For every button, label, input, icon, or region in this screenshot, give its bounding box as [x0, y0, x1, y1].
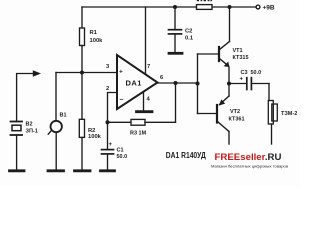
earphone TEM-2 — [268, 84, 277, 145]
ground (under R2) — [75, 169, 91, 172]
svg-text:R3 1M: R3 1M — [130, 131, 147, 137]
label C3 50.0 — [241, 70, 262, 76]
watermark FREEseller.RU — [211, 152, 288, 168]
svg-text:В2: В2 — [26, 122, 33, 128]
label В2 ЗП-1 — [26, 122, 38, 135]
svg-text:0.1: 0.1 — [185, 36, 194, 42]
svg-text:C1: C1 — [117, 148, 124, 154]
svg-text:В1: В1 — [60, 113, 67, 119]
svg-text:VT2: VT2 — [230, 109, 240, 115]
svg-text:C3: C3 — [241, 70, 248, 76]
wire B2 to input with arrow — [17, 70, 41, 120]
wire pin 2 feedback left — [108, 93, 118, 123]
piezo B2 — [11, 122, 23, 170]
op-amp U1 DA1 triangle — [117, 55, 158, 109]
svg-text:2: 2 — [106, 86, 109, 92]
svg-text:100k: 100k — [90, 38, 104, 44]
capacitor C2 — [169, 7, 182, 52]
node junction R1/R2 input — [80, 70, 84, 74]
resistor R5 (top, label clipped) — [197, 5, 213, 10]
microphone B1 — [48, 73, 62, 170]
svg-text:КТ315: КТ315 — [233, 55, 249, 61]
resistor R2 — [79, 73, 84, 170]
wire base coupling vertical — [197, 54, 199, 114]
svg-text:FREEseller.RU: FREEseller.RU — [215, 152, 282, 162]
resistor R1 — [80, 7, 85, 73]
wire pin 4 down — [143, 92, 145, 110]
svg-text:–: – — [120, 97, 124, 104]
wire input to pin 3 — [56, 72, 117, 74]
node junction feedback / C1 — [105, 120, 109, 124]
svg-text:VT1: VT1 — [233, 48, 243, 54]
node junction output / feedback — [173, 81, 177, 85]
svg-text:Магазин бесплатных цифровых то: Магазин бесплатных цифровых товаров — [211, 164, 288, 168]
svg-text:C2: C2 — [185, 29, 192, 35]
svg-text:7: 7 — [147, 64, 150, 70]
capacitor C1 — [102, 122, 114, 169]
ground (under pin 4) — [137, 110, 153, 113]
svg-text:+: + — [240, 77, 244, 83]
capacitor C3 — [229, 78, 269, 90]
wire pin 7 to rail — [145, 7, 147, 74]
svg-text:ТЗМ-2: ТЗМ-2 — [281, 111, 297, 117]
svg-text:50.0: 50.0 — [117, 154, 128, 160]
resistor R3 — [108, 119, 176, 125]
svg-text:R2: R2 — [88, 128, 95, 134]
wire output pin 6 — [158, 82, 198, 84]
label R1 100k — [90, 30, 104, 44]
svg-text:DA1 R140УД: DA1 R140УД — [166, 151, 206, 160]
svg-text:3: 3 — [106, 64, 110, 70]
ground (under B2) — [10, 169, 25, 172]
svg-text:ЗП-1: ЗП-1 — [26, 129, 38, 135]
svg-text:50.0: 50.0 — [251, 70, 262, 76]
ground (under C2) — [169, 52, 182, 55]
transistor Q2 VT2 KT361 — [198, 84, 230, 145]
svg-text:DA1: DA1 — [126, 79, 142, 88]
ground (under C1) — [101, 169, 115, 172]
svg-text:4: 4 — [147, 97, 151, 103]
svg-text:+: + — [109, 142, 113, 148]
label R2 100k — [88, 128, 102, 140]
terminal +9V — [256, 5, 260, 9]
node junction emitters / C3 — [227, 81, 231, 85]
node junction rail / VT1 collector — [228, 5, 232, 9]
node junction rail / C2 — [173, 5, 177, 9]
svg-text:100k: 100k — [88, 134, 102, 140]
ground (under B1) — [48, 169, 64, 172]
svg-text:+9В: +9В — [263, 5, 275, 12]
label C2 0.1 — [185, 29, 194, 42]
svg-text:КТ361: КТ361 — [229, 117, 245, 123]
wire top supply rail — [82, 6, 256, 8]
label C1 50.0 — [117, 148, 128, 161]
svg-text:+: + — [119, 69, 123, 76]
transistor Q1 VT1 KT315 — [198, 7, 230, 84]
wire feedback up to output — [175, 83, 177, 122]
svg-text:R1: R1 — [90, 30, 98, 36]
node junction bases drive — [195, 81, 199, 85]
svg-text:6: 6 — [160, 75, 164, 81]
label R5 clipped text above edge — [197, 0, 212, 1]
